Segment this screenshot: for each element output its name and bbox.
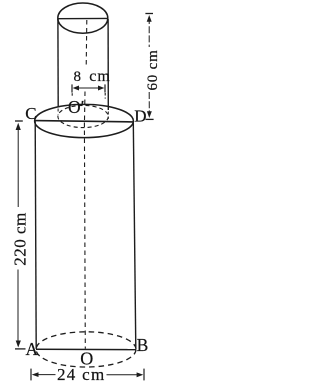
svg-text:A: A [26,339,39,359]
svg-text:60 cm: 60 cm [145,49,161,90]
svg-text:C: C [25,104,36,123]
svg-text:B: B [137,335,149,355]
svg-text:24 cm: 24 cm [57,365,106,384]
svg-text:8cm: 8cm [74,68,111,85]
svg-text:220 cm: 220 cm [11,212,30,266]
svg-text:O′: O′ [68,97,84,117]
svg-text:D: D [134,107,146,126]
